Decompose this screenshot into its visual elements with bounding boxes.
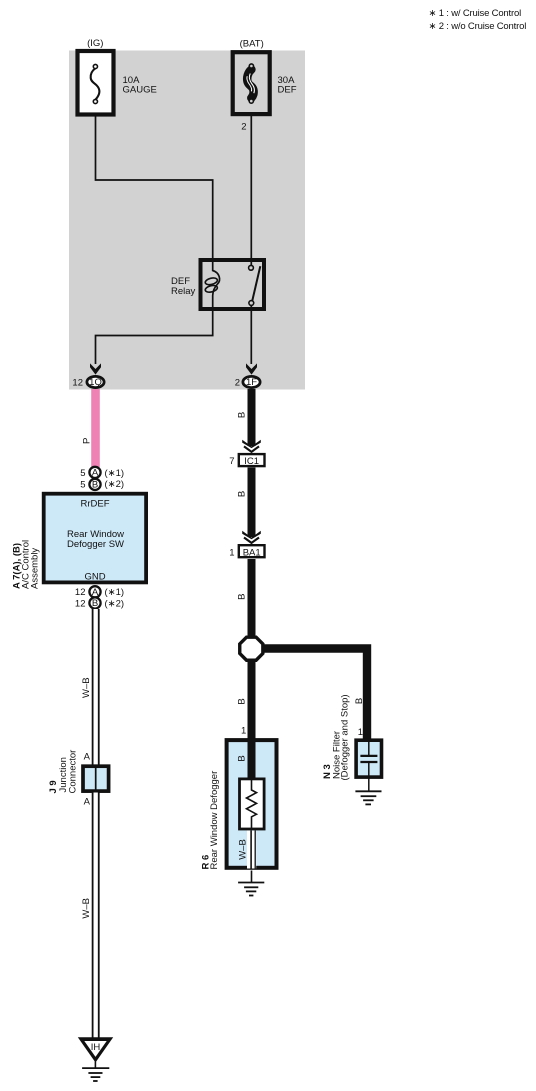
wire: relay coil to connector 1Q [96, 310, 213, 364]
fuse (IG) 10A GAUGE [78, 38, 157, 115]
svg-text:W–B: W–B [81, 677, 92, 698]
connector 1F [235, 376, 260, 388]
connector pin 5A [80, 467, 124, 479]
svg-text:B: B [237, 491, 248, 497]
svg-text:B: B [237, 755, 248, 761]
svg-text:∗ 1 : w/ Cruise Control: ∗ 1 : w/ Cruise Control [429, 8, 522, 19]
svg-text:A: A [92, 468, 99, 479]
svg-text:1Q: 1Q [89, 377, 102, 388]
svg-text:5: 5 [80, 468, 85, 479]
wire: BAT fuse to DEF relay switch [250, 115, 252, 266]
relay box [201, 260, 265, 309]
N3 body (blue) [356, 740, 381, 777]
component name N 3 Noise Filter (Defogger and Stop) [322, 694, 351, 780]
connector 1Q [72, 376, 104, 388]
svg-text:GND: GND [84, 572, 105, 583]
J9 box [83, 766, 109, 791]
svg-text:(∗2): (∗2) [105, 479, 125, 490]
A/C assembly box [44, 494, 146, 583]
component name R 6 Rear Window Defogger [201, 771, 221, 870]
arrow into connector 1F [246, 363, 257, 374]
svg-text:B: B [354, 698, 365, 704]
svg-text:RrDEF: RrDEF [80, 499, 109, 510]
fusible link F(BAT) body [233, 52, 270, 114]
svg-text:IH: IH [91, 1042, 101, 1053]
svg-text:(Defogger and Stop): (Defogger and Stop) [340, 694, 351, 780]
wire B inside R6 [248, 740, 256, 778]
svg-text:Relay: Relay [171, 286, 196, 297]
svg-text:B: B [92, 598, 98, 609]
junction node [240, 637, 263, 660]
component N3: Noise Filter [356, 740, 381, 791]
power source block (gray) [69, 51, 305, 390]
connector pin 12A [75, 586, 124, 598]
ground IH [78, 1037, 113, 1081]
wire W-B inside R6 [247, 831, 256, 869]
fuse F(IG) body [78, 51, 114, 115]
connector pin 12B [75, 597, 124, 609]
component name J 9 Junction Connector [48, 750, 79, 794]
ground under R6 [238, 871, 264, 896]
svg-text:IC1: IC1 [244, 456, 259, 467]
wire B: IC1 to BA1 [248, 468, 256, 538]
svg-text:1: 1 [229, 548, 234, 559]
svg-text:Rear Window Defogger: Rear Window Defogger [209, 771, 220, 870]
fusible link (BAT) 30A DEF [233, 38, 297, 132]
svg-text:DEF: DEF [278, 85, 297, 96]
svg-text:(∗1): (∗1) [105, 468, 125, 479]
svg-text:(∗1): (∗1) [105, 587, 125, 598]
component R6: Rear Window Defogger [227, 740, 277, 869]
arrow into connector 1Q [90, 363, 101, 374]
svg-text:1: 1 [241, 726, 246, 737]
svg-text:P: P [81, 438, 92, 444]
svg-text:∗ 2 : w/o Cruise Control: ∗ 2 : w/o Cruise Control [429, 21, 527, 32]
svg-text:Assembly: Assembly [30, 548, 41, 589]
relay switch contact [249, 265, 254, 270]
wire W-B: J9 to ground IH [92, 793, 100, 1041]
resistor element (defogger grid) [240, 779, 265, 829]
capacitor element [360, 755, 377, 757]
svg-text:B: B [92, 480, 98, 491]
svg-text:A: A [84, 752, 91, 763]
svg-text:W–B: W–B [81, 898, 92, 919]
svg-text:BA1: BA1 [243, 548, 261, 559]
wire B: 1F to IC1 [248, 389, 256, 446]
wire: IG fuse to DEF relay coil [96, 116, 213, 260]
note: cruise control legend [429, 8, 527, 32]
arrow (double chevron) into BA1 [242, 531, 261, 543]
svg-text:Connector: Connector [68, 750, 79, 794]
ground under N3 [355, 791, 381, 804]
wire P (pink) 1Q to A/C assembly [91, 389, 100, 467]
svg-text:12: 12 [72, 378, 83, 389]
arrow (double chevron) into IC1 [242, 440, 261, 452]
component A7: A/C Control Assembly (Rear Window Defogger SW) [44, 494, 146, 583]
wire: relay switch to connector 1F [250, 304, 252, 364]
component name A 7(A),(B) A/C Control Assembly [12, 540, 41, 589]
wire B: junction node to R6 [248, 660, 256, 740]
svg-text:12: 12 [75, 587, 86, 598]
svg-text:2: 2 [235, 378, 240, 389]
wire B: junction to noise filter (right branch) [258, 649, 367, 741]
svg-text:(IG): (IG) [87, 38, 103, 49]
connector pin 5B [80, 479, 124, 491]
svg-text:1F: 1F [246, 377, 257, 388]
svg-text:B: B [237, 412, 248, 418]
connector IC1 [229, 454, 264, 467]
svg-text:W–B: W–B [237, 839, 248, 860]
svg-text:B: B [237, 698, 248, 704]
svg-text:Defogger SW: Defogger SW [67, 539, 124, 550]
IH triangle [78, 1037, 113, 1062]
svg-text:(∗2): (∗2) [105, 598, 125, 609]
svg-text:1: 1 [358, 727, 363, 738]
wire W-B: 12B to junction connector J9 [92, 609, 100, 765]
svg-text:12: 12 [75, 598, 86, 609]
wire B: BA1 to junction node [248, 559, 256, 637]
ground stem and lines [94, 1062, 96, 1069]
svg-text:7: 7 [229, 456, 234, 467]
relay coil [213, 260, 220, 310]
svg-text:5: 5 [80, 479, 85, 490]
junction connector J9 [83, 766, 109, 791]
svg-text:(BAT): (BAT) [240, 38, 264, 49]
connector BA1 [229, 545, 264, 558]
svg-text:A: A [84, 797, 91, 808]
svg-text:2: 2 [241, 122, 246, 133]
R6 body (blue) [227, 740, 277, 868]
relay: DEF Relay [171, 260, 264, 310]
svg-text:GAUGE: GAUGE [123, 85, 157, 96]
svg-text:B: B [237, 594, 248, 600]
J9 divider [95, 766, 97, 791]
